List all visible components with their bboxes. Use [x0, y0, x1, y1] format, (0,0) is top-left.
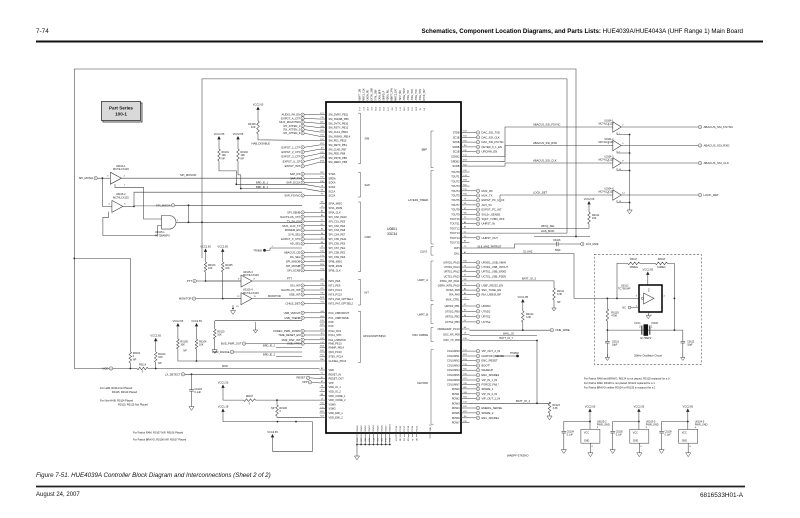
IC pin SM_CL4D_PB7: [320, 148, 327, 150]
group bracket SIM: [358, 113, 361, 164]
svg-text:J16: J16: [463, 416, 466, 418]
svg-text:SPI_CS7_PE1: SPI_CS7_PE1: [329, 246, 346, 250]
svg-text:R10: R10: [390, 438, 392, 441]
svg-text:F6: F6: [321, 233, 323, 235]
IC pin INT5_PA7_GPTSEL2: [320, 303, 327, 305]
net URXD1_USB_VMIN: [470, 262, 477, 264]
IC pin TOUT13: [461, 232, 470, 234]
svg-text:SM_RSTY_PB12: SM_RSTY_PB12: [329, 126, 349, 130]
svg-text:10K: 10K: [208, 267, 213, 270]
svg-text:K15: K15: [320, 338, 323, 340]
IC pin SPI_CS2_PE4: [320, 225, 327, 227]
svg-text:VIP_OUT_1_IN: VIP_OUT_1_IN: [482, 396, 501, 400]
svg-text:N13: N13: [463, 359, 466, 361]
svg-text:TOUT6: TOUT6: [451, 198, 460, 202]
svg-text:VDD: VDD: [329, 368, 335, 372]
wire stub to oscillator top: [534, 236, 590, 238]
svg-text:SM_DERX_PB3: SM_DERX_PB3: [329, 160, 348, 164]
svg-text:PA2_USBVPIN: PA2_USBVPIN: [329, 338, 346, 342]
svg-text:DAC_SSI_CLK: DAC_SSI_CLK: [482, 135, 500, 139]
IC pin DTRA_INT_PA11: [461, 280, 470, 282]
wire SPI_MISOA: [134, 205, 171, 207]
svg-text:W15: W15: [320, 297, 324, 299]
ground: [610, 450, 615, 454]
wire VCC1.55 to R0107: [223, 391, 244, 400]
svg-text:SCKB2: SCKB2: [451, 155, 460, 159]
svg-text:R0117: R0117: [630, 258, 638, 261]
svg-text:0.1uF: 0.1uF: [665, 434, 672, 437]
svg-text:0.1uF: 0.1uF: [616, 434, 623, 437]
svg-text:EMERG_SENSE: EMERG_SENSE: [482, 406, 503, 410]
svg-text:F6: F6: [464, 315, 466, 317]
svg-text:A4: A4: [464, 287, 466, 290]
svg-text:DCDA_PA8: DCDA_PA8: [446, 288, 460, 292]
svg-text:URTS1_PA12: URTS1_PA12: [444, 270, 460, 274]
svg-text:GND6: GND6: [381, 425, 383, 432]
svg-text:7-74: 7-74: [36, 28, 49, 35]
net ENC_RESET: [470, 360, 477, 362]
IC pin PC0_USBVMOUT: [320, 312, 327, 314]
svg-text:K15: K15: [320, 152, 323, 154]
net 16.8_MHZ: [581, 242, 584, 245]
svg-text:WIXQ_SEL: WIXQ_SEL: [541, 224, 555, 228]
svg-text:LOCK_DET: LOCK_DET: [704, 193, 719, 197]
wire VCC2.65 riser: [273, 422, 313, 452]
wire 16.8 MHz: [470, 244, 557, 248]
VCC2.65 supply U0104-5: [686, 409, 689, 412]
svg-text:D1: D1: [321, 377, 323, 379]
svg-text:SAP_RX: SAP_RX: [290, 172, 301, 176]
VCC2.65 supply U0105-2: [588, 409, 591, 412]
svg-text:MC74LCX125: MC74LCX125: [243, 274, 259, 277]
wire U0104-3 enable: [617, 168, 630, 170]
svg-text:0.1uF: 0.1uF: [567, 434, 574, 437]
svg-text:V7: V7: [321, 194, 323, 196]
svg-text:CHILE_DET: CHILE_DET: [286, 302, 301, 306]
svg-text:GND12: GND12: [390, 423, 392, 431]
wire HAS_MOD: [470, 232, 568, 234]
svg-text:Figure 7-51. HUE4039A Controll: Figure 7-51. HUE4039A Controller Block D…: [36, 472, 271, 479]
net SQFT_TURN_OFF: [470, 218, 477, 220]
net URXD2: [470, 305, 477, 307]
svg-text:URXD2: URXD2: [482, 304, 492, 308]
svg-text:W6: W6: [321, 202, 324, 204]
ground: [212, 350, 217, 354]
capacitor C0103 0.1uF: [191, 374, 193, 389]
svg-text:VIP_IN_2_IN: VIP_IN_2_IN: [482, 392, 498, 396]
svg-text:B14: B14: [320, 316, 323, 318]
svg-text:VCC1.55: VCC1.55: [218, 380, 229, 384]
svg-text:LX_DETECT: LX_DETECT: [165, 372, 181, 376]
svg-text:SC1A: SC1A: [329, 189, 336, 193]
IC U0104-5 PWR_GND: [679, 429, 698, 443]
wire R0105 to MONITOR: [222, 255, 224, 262]
resistor R0105 10K: [221, 262, 224, 272]
svg-text:P14: P14: [320, 268, 323, 270]
wire U0103-2 output up branch: [134, 192, 302, 206]
svg-text:U8: U8: [464, 203, 466, 205]
svg-text:SPARE_2: SPARE_2: [482, 411, 494, 415]
group bracket INT: [358, 280, 361, 306]
IC pin TOUT7: [461, 204, 470, 206]
IC pin ROW0: [461, 388, 470, 390]
svg-text:JTAG_TMS: JTAG_TMS: [419, 89, 422, 101]
wire R0107 to VDD_CORE: [256, 399, 320, 401]
svg-text:G16: G16: [320, 311, 324, 313]
IC pin STDA: [320, 173, 327, 175]
svg-text:M13: M13: [463, 160, 467, 162]
wire WALL_ID: [470, 335, 538, 337]
svg-text:NAUTILUS_CTF: NAUTILUS_CTF: [280, 215, 300, 219]
svg-text:F6: F6: [321, 385, 323, 387]
svg-text:TOUT9: TOUT9: [451, 212, 460, 216]
svg-text:E5: E5: [464, 310, 466, 312]
svg-text:MOD: MOD: [222, 365, 228, 368]
svg-text:For Patriot BRAVO, R0106 N/P,: For Patriot BRAVO, R0106 N/P, R0107 Plac…: [133, 438, 187, 442]
svg-text:SPIA_MOSI: SPIA_MOSI: [329, 206, 343, 210]
IC pin VPP: [320, 382, 327, 384]
VCC2.65 pullup R0103: [204, 249, 207, 252]
svg-text:BOOT*: BOOT*: [482, 364, 491, 368]
svg-text:VDDA_PLL: VDDA_PLL: [387, 88, 390, 100]
wire vcc node U0104-5: [687, 415, 689, 430]
svg-text:NC: NC: [622, 307, 626, 310]
resistor R0109 10K NP: [177, 339, 180, 349]
svg-text:J16: J16: [320, 147, 323, 149]
svg-text:SM_PD1_PB13: SM_PD1_PB13: [329, 139, 347, 143]
svg-text:GND4: GND4: [373, 425, 375, 432]
IC pin SM_DVRX_PB11: [320, 114, 327, 116]
svg-text:SPI_CS9_PE3: SPI_CS9_PE3: [329, 255, 346, 259]
svg-text:NP: NP: [158, 362, 162, 365]
wire HAB_DISABLE: [258, 134, 320, 141]
svg-text:J16: J16: [365, 438, 367, 441]
wire U0104-3 output: [621, 162, 698, 164]
svg-text:SM_DVTX_PB10: SM_DVTX_PB10: [329, 121, 349, 125]
svg-text:CKIL: CKIL: [454, 252, 460, 256]
IC U0801 body: [326, 102, 461, 433]
svg-text:SIM: SIM: [365, 136, 371, 140]
svg-text:G7: G7: [321, 237, 324, 239]
svg-text:VCC2.65: VCC2.65: [643, 267, 654, 271]
svg-text:TOUT11: TOUT11: [450, 222, 460, 226]
svg-text:10MEG: 10MEG: [657, 266, 666, 269]
IC pin SPI_CS6_PE5: [320, 243, 327, 245]
footer rule: [36, 486, 745, 488]
svg-text:UART_B: UART_B: [417, 313, 428, 317]
svg-text:INT4_PA6_GPTSEL1: INT4_PA6_GPTSEL1: [329, 297, 354, 301]
ground: [627, 210, 632, 214]
svg-text:ABACUS_SSI_RXD: ABACUS_SSI_RXD: [533, 141, 557, 145]
IC pin SC1A: [320, 190, 327, 192]
svg-text:VDD_CORE_2: VDD_CORE_2: [329, 398, 347, 402]
IC pin SPI_CS8_PE2: [320, 251, 327, 253]
svg-text:R15: R15: [463, 368, 466, 370]
svg-text:TC7SU04F: TC7SU04F: [618, 288, 631, 291]
IC pin SRDA: [320, 177, 327, 179]
svg-text:HAB_DISABLE: HAB_DISABLE: [252, 141, 271, 145]
VCC2.65 pullup R0105: [221, 249, 224, 252]
IC pin INT2_PC14: [320, 289, 327, 291]
IC pin SPIB_MISO: [320, 260, 327, 262]
net SVL5+_SENSE: [470, 213, 477, 215]
svg-text:K15: K15: [463, 150, 466, 152]
svg-text:J9: J9: [321, 398, 323, 400]
svg-text:GND1: GND1: [361, 425, 363, 432]
IC pin SPI_CS1_PE3: [320, 220, 327, 222]
svg-text:SPI_MISOA: SPI_MISOA: [156, 203, 171, 207]
IC pin ROW5: [461, 412, 470, 414]
IC pin STDB: [461, 132, 470, 134]
wire R0104 bottom join: [196, 349, 198, 361]
svg-text:GP1GIO/GPT/MISC: GP1GIO/GPT/MISC: [363, 334, 386, 338]
IC pin ROW7: [461, 422, 470, 424]
svg-text:VCC2.65: VCC2.65: [233, 132, 244, 136]
svg-text:V16: V16: [463, 383, 466, 385]
svg-text:SPIA_CLK: SPIA_CLK: [329, 210, 341, 214]
svg-text:CKOH_PD: CKOH_PD: [367, 89, 369, 100]
svg-text:TOUT15: TOUT15: [450, 241, 460, 245]
wire MOD to IC: [158, 368, 320, 370]
svg-text:N12: N12: [400, 438, 402, 441]
svg-text:D13: D13: [320, 135, 323, 137]
svg-text:SSC_TUNE_EN: SSC_TUNE_EN: [482, 288, 502, 292]
IC pin PC8: [320, 321, 327, 323]
svg-text:SPI_MOSIUF: SPI_MOSIUF: [180, 173, 197, 177]
net KEYED_9_1_EN: [470, 146, 477, 148]
svg-text:For Patriot RAM and BRAVO, R01: For Patriot RAM and BRAVO, R0124 is not …: [584, 377, 670, 381]
IC pin TOUT9: [461, 213, 470, 215]
svg-text:MC74LCX125: MC74LCX125: [598, 141, 614, 144]
svg-text:RIA_USB/SUSP: RIA_USB/SUSP: [482, 293, 502, 297]
svg-text:VDD_CORE_1: VDD_CORE_1: [329, 394, 347, 398]
IC pin COLUMN6: [461, 379, 470, 381]
svg-text:32.768kHz: 32.768kHz: [640, 337, 652, 340]
svg-text:PWR_GND: PWR_GND: [597, 424, 610, 427]
IC pin SM_SVBNY_PB14: [320, 135, 327, 137]
svg-text:E12: E12: [320, 139, 323, 141]
IC pin SPI_CS4_PE7: [320, 234, 327, 236]
VCC2.65 oscillator: [646, 272, 649, 275]
svg-text:TOUT13: TOUT13: [450, 231, 460, 235]
svg-text:N13: N13: [320, 264, 323, 266]
IC pin SM_DETX_PB4: [320, 144, 327, 146]
IC pin SPIA_MOSI: [320, 207, 327, 209]
svg-text:RESET_OUT: RESET_OUT: [329, 377, 345, 381]
net UCTS1_USB_FSEN: [470, 275, 477, 277]
svg-text:R0118: R0118: [658, 258, 666, 261]
svg-text:BATT_IO_3: BATT_IO_3: [522, 276, 536, 280]
svg-text:COLUMN6: COLUMN6: [447, 378, 460, 382]
svg-text:COLUMN1: COLUMN1: [447, 354, 460, 358]
resistor R0121 10K: [588, 212, 591, 224]
IC pin TOUT1: [461, 176, 470, 178]
svg-text:INT2_PC14: INT2_PC14: [329, 288, 343, 292]
svg-text:LOCK_DET: LOCK_DET: [533, 191, 548, 195]
capacitor C0109 0.1uF: [659, 430, 664, 432]
svg-text:R10: R10: [320, 359, 323, 361]
svg-text:ABACUS_SSI_FSYNC: ABACUS_SSI_FSYNC: [704, 125, 734, 129]
IC pin VDD_IO_1: [320, 386, 327, 388]
svg-text:VCC: VCC: [584, 432, 589, 435]
svg-text:SM_PDE_PB8: SM_PDE_PB8: [329, 152, 346, 156]
net SPARE_2: [470, 412, 477, 414]
net VIP_OUT_2_IN: [470, 350, 477, 352]
IC pin SPIA_MISO: [320, 203, 327, 205]
svg-text:16.8_MHZ: 16.8_MHZ: [586, 242, 599, 246]
svg-text:VCC2.65: VCC2.65: [585, 404, 596, 408]
wire R0122 to one wire: [522, 322, 524, 330]
svg-text:VIP_IN_1_IN: VIP_IN_1_IN: [482, 378, 498, 382]
IC pin RMMP_PE14: [320, 347, 327, 349]
svg-text:VPP: VPP: [329, 381, 334, 385]
IC pin DCDA_PA8: [461, 289, 470, 291]
svg-text:For Patriot RAM, R0125 is not: For Patriot RAM, R0125 is not placed, R0…: [584, 381, 655, 385]
svg-text:C2: C2: [464, 231, 466, 233]
IC pin SPIA_CLK: [320, 211, 327, 213]
svg-text:3.3K: 3.3K: [526, 316, 531, 319]
svg-text:RX_ATTEN_3: RX_ATTEN_3: [283, 131, 300, 135]
svg-text:18pF: 18pF: [612, 344, 618, 347]
svg-text:UCTS2: UCTS2: [482, 320, 491, 324]
svg-text:VDD_EMI_1: VDD_EMI_1: [329, 411, 344, 415]
group bracket LAYER1_TIMER: [431, 171, 434, 245]
svg-text:MUX_RX: MUX_RX: [482, 189, 493, 193]
svg-text:UBATT_SN: UBATT_SN: [358, 89, 361, 101]
svg-text:VIP_OUT_2_IN: VIP_OUT_2_IN: [482, 349, 501, 353]
capacitor C0105 0.1uF: [610, 430, 615, 432]
svg-text:10K: 10K: [180, 344, 185, 347]
svg-text:E5: E5: [321, 381, 323, 383]
IC pin COLUMN5: [461, 374, 470, 376]
svg-text:R0115, R0113 Placed: R0115, R0113 Placed: [112, 390, 138, 394]
IC pin INT0_PE6: [320, 280, 327, 282]
svg-text:For Non-HAB, R0114 Placed: For Non-HAB, R0114 Placed: [100, 399, 134, 403]
svg-text:DA_SEL: DA_SEL: [290, 255, 301, 259]
wire crystal row: [607, 329, 674, 331]
svg-text:SPI_CS4_PE7: SPI_CS4_PE7: [329, 233, 346, 237]
IC pin SM_PD1_PB13: [320, 140, 327, 142]
svg-text:U8: U8: [321, 190, 323, 192]
svg-text:TEST_MD: TEST_MD: [400, 90, 402, 101]
svg-text:SPARE_1: SPARE_1: [482, 387, 494, 391]
svg-text:L14: L14: [320, 156, 323, 158]
svg-text:BRD_ID_3: BRD_ID_3: [263, 345, 276, 348]
svg-text:R10: R10: [320, 181, 323, 183]
svg-text:R0107: R0107: [246, 395, 254, 398]
svg-text:P11: P11: [404, 438, 406, 441]
svg-text:Y5: Y5: [464, 284, 466, 286]
IC pin SCKB: [461, 141, 470, 143]
resistor R0118 10MEG: [655, 262, 667, 265]
net SSC_TUNE_EN: [470, 289, 477, 291]
svg-text:PWR_GND: PWR_GND: [646, 424, 659, 427]
svg-text:RX_ATTEN_1: RX_ATTEN_1: [283, 124, 300, 128]
svg-text:L14: L14: [463, 175, 466, 177]
svg-text:A4: A4: [321, 210, 323, 213]
svg-text:K10: K10: [320, 403, 323, 405]
svg-text:K15: K15: [463, 421, 466, 423]
svg-text:P14: P14: [463, 364, 466, 366]
wire oscillator input node: [600, 297, 639, 299]
svg-text:UTXD2_PB0: UTXD2_PB0: [445, 309, 460, 313]
IC pin TOUT4: [461, 190, 470, 192]
svg-text:ABACUS_SSI_CLK: ABACUS_SSI_CLK: [533, 159, 557, 163]
svg-text:ROW3: ROW3: [452, 401, 460, 405]
svg-text:ROW4: ROW4: [452, 406, 460, 410]
net EXPGT_PC_INT: [470, 209, 477, 211]
svg-text:SCDB: SCDB: [452, 164, 459, 168]
IC pin URTS2_PB2: [461, 316, 470, 318]
svg-text:VCC2.65: VCC2.65: [683, 404, 694, 408]
svg-text:B14: B14: [463, 397, 466, 399]
svg-text:TOUT7: TOUT7: [451, 203, 460, 207]
svg-text:GND2: GND2: [365, 425, 367, 432]
svg-text:KEYED_9_1_EN: KEYED_9_1_EN: [482, 145, 502, 149]
svg-text:August 24, 2007: August 24, 2007: [36, 492, 80, 498]
svg-text:ROW1: ROW1: [452, 392, 460, 396]
svg-text:Part Series: Part Series: [109, 106, 133, 111]
svg-text:0.1uF: 0.1uF: [195, 391, 202, 394]
IC pin VDD_CORE_2: [320, 399, 327, 401]
IC pin SM_DERX_PB3: [320, 161, 327, 163]
svg-text:ROW2: ROW2: [452, 396, 460, 400]
svg-text:C15: C15: [320, 117, 323, 119]
wire R0103 to PTT: [205, 255, 207, 262]
IC pin URXD2_PB1: [461, 305, 470, 307]
svg-text:R0114: R0114: [139, 363, 147, 366]
svg-text:VCC1.18: VCC1.18: [218, 404, 229, 408]
svg-text:PTT: PTT: [187, 279, 192, 283]
svg-text:TOUT8: TOUT8: [451, 208, 460, 212]
svg-text:UCTS1_PA13: UCTS1_PA13: [444, 274, 460, 278]
IC pin CKIL: [461, 253, 470, 255]
svg-text:32kHz Oscillator Circuit: 32kHz Oscillator Circuit: [634, 354, 662, 358]
svg-text:MMC2_DAT: MMC2_DAT: [395, 88, 398, 101]
wire R0109 bottom to IC: [178, 349, 320, 361]
svg-text:W6: W6: [464, 213, 467, 215]
svg-text:3.3K: 3.3K: [557, 293, 562, 296]
IC pin TOUT3: [461, 185, 470, 187]
svg-text:GND5: GND5: [377, 425, 379, 432]
svg-text:M12: M12: [320, 260, 324, 262]
IC pin SRDB: [461, 146, 470, 148]
svg-text:UHRST_IN: UHRST_IN: [482, 222, 495, 226]
wire gnd pin: [687, 443, 689, 453]
wire VCC1.18 row: [223, 415, 313, 422]
group bracket GPIO: [358, 311, 361, 362]
wire BATT_IO_4: [470, 402, 550, 404]
IC pin DSRA_INTB_PA10: [461, 285, 470, 287]
svg-text:P11: P11: [463, 189, 466, 191]
svg-text:GND7: GND7: [386, 425, 388, 432]
IC pin SPIB_MOSI: [320, 265, 327, 267]
IC pin SM_PDE_PB8: [320, 153, 327, 155]
resistor R0104 10K NP: [195, 339, 198, 349]
IC pin MUX_CTRL: [461, 298, 470, 300]
svg-text:U8: U8: [416, 439, 418, 441]
svg-text:SPI_MOSIB: SPI_MOSIB: [286, 264, 301, 268]
svg-text:NP: NP: [241, 157, 245, 160]
svg-text:EXPGT_A_CTF: EXPGT_A_CTF: [281, 116, 300, 120]
svg-text:VDD_IO_1: VDD_IO_1: [329, 385, 342, 389]
svg-text:R0113, R0115 Not Placed: R0113, R0115 Not Placed: [118, 403, 148, 407]
svg-text:TOUT5: TOUT5: [451, 194, 460, 198]
svg-text:L14: L14: [463, 155, 466, 157]
svg-text:16.8_MHZ_PATRIOT: 16.8_MHZ_PATRIOT: [477, 245, 502, 249]
IC pin VDD_EMI_2: [320, 416, 327, 418]
wire BATT_IO bus vertical: [536, 341, 538, 404]
